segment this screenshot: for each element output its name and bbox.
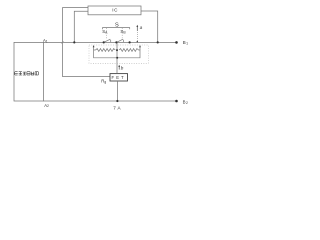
svg-text:S: S — [115, 23, 119, 29]
svg-text:A1: A1 — [43, 38, 48, 43]
svg-text:a: a — [140, 25, 143, 30]
svg-text:IC: IC — [112, 7, 118, 12]
svg-text:FET: FET — [112, 75, 126, 80]
svg-text:B2: B2 — [183, 100, 189, 105]
svg-text:b: b — [121, 66, 124, 71]
svg-text:SB: SB — [120, 29, 126, 34]
svg-text:SA: SA — [102, 29, 108, 34]
svg-text:Rg: Rg — [101, 78, 106, 84]
svg-text:7A: 7A — [113, 105, 122, 110]
svg-text:A2: A2 — [44, 103, 49, 108]
svg-text:B1: B1 — [183, 40, 189, 45]
